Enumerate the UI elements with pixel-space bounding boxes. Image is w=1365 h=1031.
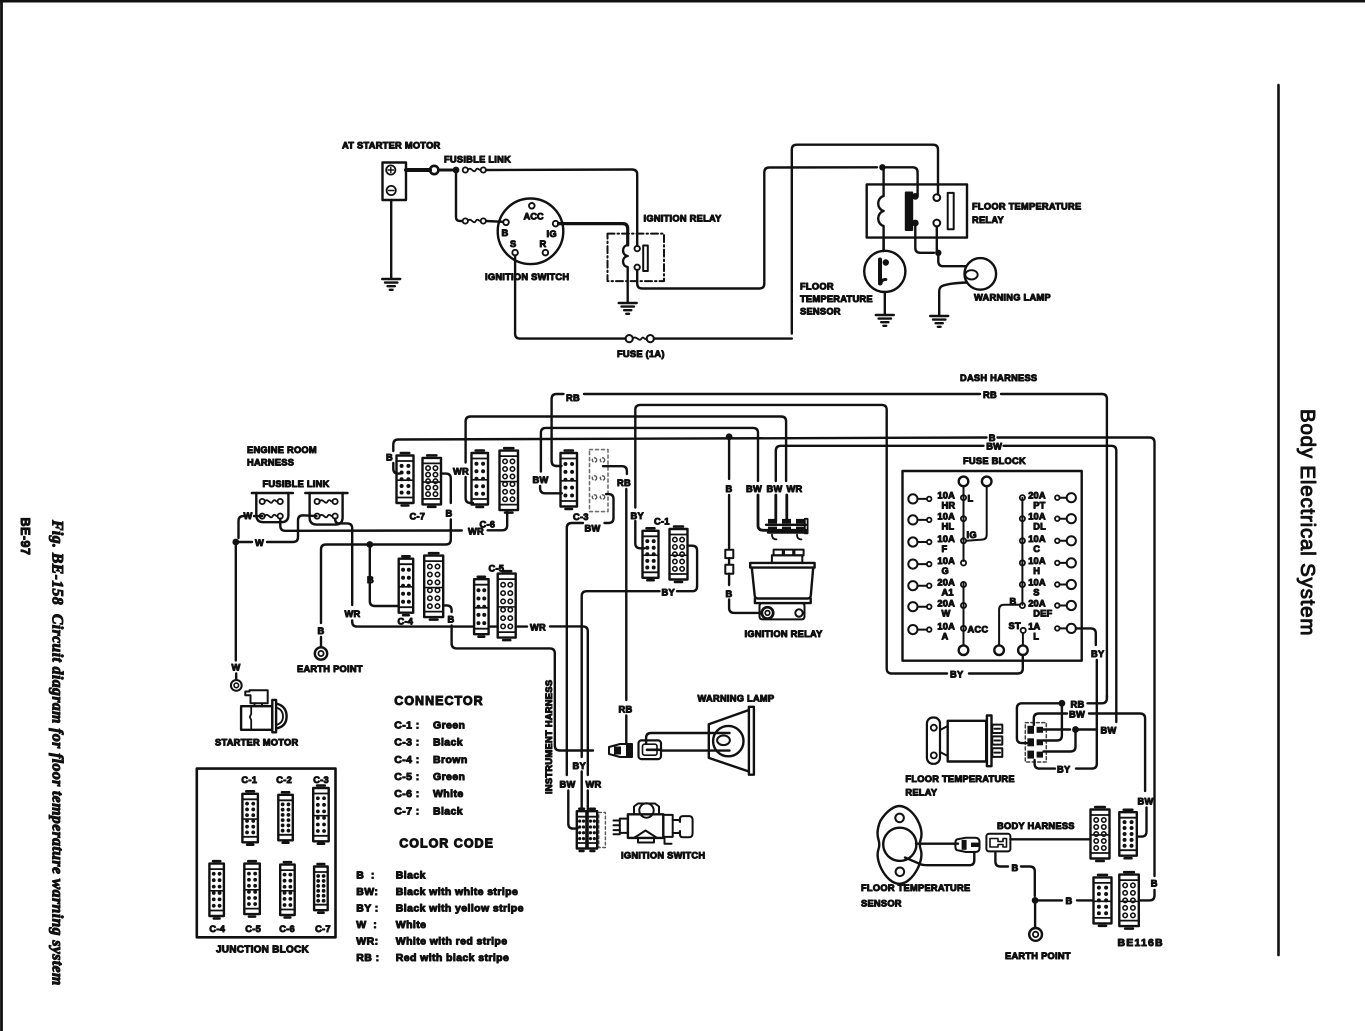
page frame: top border line [0,0,1365,3]
svg-text:L: L [1033,631,1039,641]
floor-temp relay coil [878,167,883,251]
fuse block B circle link down-left to bottom terminal [999,605,1020,646]
bullet connector on B branch (upper) [725,550,733,558]
svg-text:S: S [1033,588,1039,598]
connector C-3 (ghost half, dashed) [590,450,609,512]
svg-text:BW: BW [767,484,783,494]
svg-text:W: W [942,609,951,619]
svg-text:S: S [510,239,516,249]
svg-text:C-7: C-7 [315,924,331,934]
wire: fuse to floor-temp sensor riser [654,337,792,339]
connector C-4 (dark half) [399,559,414,613]
junction block connector C-7 [314,867,328,911]
svg-text:RB: RB [619,705,633,715]
svg-text:C-6: C-6 [279,924,295,934]
ignition switch (key switch circle) [498,199,564,265]
connector C-5 (dark half) [474,579,489,634]
svg-text:B: B [1012,863,1019,873]
svg-text:Green: Green [433,771,465,783]
svg-text:IGNITION RELAY: IGNITION RELAY [644,214,723,224]
connector C-5 (light half) [498,574,516,638]
svg-text:10A: 10A [937,556,955,566]
wire RB: C-3 ghost to RB riser [603,466,627,474]
wire WR: between C-5 halves [489,625,497,627]
wire: fusible link to B terminal [486,220,503,223]
bus BW (L4a): C-3 to relay strip [540,486,562,493]
svg-text:PT: PT [1033,501,1045,511]
floor temperature sensor (bottom, physical flange) [878,806,922,884]
wire B: sensor connector down to earth junction [995,853,1008,867]
svg-text:FLOOR TEMPERATURE: FLOOR TEMPERATURE [972,202,1081,212]
svg-text:WR: WR [586,780,602,790]
svg-text:BY: BY [573,761,587,771]
wire B: C-4 right to lamp connector bus [443,605,451,612]
svg-text:HR: HR [942,501,956,511]
floor-temp relay slot bar [948,193,954,229]
svg-text:WR:: WR: [356,935,378,947]
wire BY: C-1 right to BY riser [677,546,697,592]
fuse block left column fuses [908,494,917,503]
svg-text:FLOOR: FLOOR [800,282,834,292]
svg-text:C-4: C-4 [398,617,414,627]
lamp connector (left half, fed by RB and B) [609,744,632,757]
svg-text:RB: RB [566,393,580,403]
sensor connector (bullet pair) [955,838,979,852]
floor-temp relay contact points (circles) [933,194,940,201]
svg-text:10A: 10A [1028,534,1046,544]
svg-text:RB: RB [983,390,997,400]
connector C-7 (engine room, dark half) [397,456,414,504]
junction block connector C-2 [278,795,293,841]
body harness connector pair (light half) [1091,810,1110,859]
svg-text:EARTH POINT: EARTH POINT [1005,951,1071,961]
svg-text:HARNESS: HARNESS [247,458,294,468]
svg-text:RB: RB [1071,699,1085,709]
svg-text:C-3: C-3 [313,775,329,785]
wire W terminal ring at starter motor [231,680,242,691]
svg-text:FUSE BLOCK: FUSE BLOCK [963,456,1026,466]
svg-text:ACC: ACC [524,212,544,222]
svg-text:10A: 10A [1028,512,1046,522]
svg-text:ST: ST [1009,621,1021,631]
svg-text:Brown: Brown [433,754,468,766]
body harness connector pair (dark half) [1119,812,1137,856]
svg-text:RB :: RB : [356,952,379,964]
svg-text:FUSIBLE LINK: FUSIBLE LINK [263,479,330,489]
wire BW: relay connector top pin to BW vertical [1044,728,1071,730]
fusible link symbol (ignition switch B) [463,218,468,223]
svg-text:Black with yellow stripe: Black with yellow stripe [396,902,524,914]
fuse block right column fuses [1067,493,1076,502]
warning lamp (top, symbol) [965,258,997,290]
svg-text:Black: Black [433,805,463,817]
svg-text:FLOOR TEMPERATURE: FLOOR TEMPERATURE [861,883,970,893]
svg-text:10A: 10A [1028,556,1046,566]
wire: lamp connector upper to warning lamp [646,733,729,744]
ignition relay canister (middle drawing) [774,550,783,556]
svg-text:Black with white stripe: Black with white stripe [396,886,518,898]
wire BW: C-3 ghost to BW riser down [605,494,614,523]
svg-text:A1: A1 [942,588,954,598]
wire: BW junction drop to connector lower-right pin [1044,730,1076,752]
wire: fuse(1A) riser to warning-lamp contact circle [792,145,938,334]
wire BW#2 into strip top row [774,495,777,521]
wire RB drop from junction into connector right half [1044,703,1062,740]
connector C-1 (dark half) [643,531,659,578]
junction node on B bus (ignition relay branch) [726,433,733,440]
junction block connector C-4 [209,864,224,916]
svg-text:BY :: BY : [356,902,378,914]
floor-temp relay schematic connector (dashed ghost) [1025,723,1046,762]
ignition relay coil [623,245,628,270]
ignition relay contact points [635,246,640,251]
svg-text:W: W [255,538,264,548]
svg-text:10A: 10A [937,534,955,544]
svg-text:C-6 :: C-6 : [394,788,419,800]
svg-text:FUSIBLE LINK: FUSIBLE LINK [444,155,511,165]
wire WR: box2 right pin down to C-5 row [335,519,352,605]
svg-text:BY: BY [1091,649,1105,659]
svg-text:BW: BW [1138,797,1154,807]
connector C-6 (dark half) [472,453,489,505]
connector C-1 (light half) [670,529,688,580]
svg-text:WR: WR [787,484,803,494]
svg-text:White: White [396,919,427,931]
wire: relay outputs join to warning lamp [915,226,934,253]
ignition relay armature bar [643,246,648,272]
wire BW#1 into strip lower row [758,495,806,530]
fuse block box [903,471,1082,661]
starter motor (physical drawing) [245,690,267,703]
svg-text:B: B [386,453,393,463]
svg-text:WR: WR [530,622,546,632]
ignition relay connector strip [766,524,806,526]
svg-text:BW:: BW: [356,886,378,898]
svg-text:B: B [446,509,453,519]
svg-text:F: F [942,544,948,554]
svg-text:B: B [1066,896,1073,906]
svg-text:C-1 :: C-1 : [394,720,419,732]
ignition relay dash-dot box [608,234,665,282]
svg-text:ACC: ACC [968,624,989,634]
svg-text:20A: 20A [937,599,955,609]
svg-text:W: W [232,663,241,673]
BE116B lower connector pair (dark half) [1094,877,1112,923]
svg-text:BW: BW [746,484,762,494]
instrument harness connector (ghost) [599,813,606,848]
wire WR: C-5 to WR riser (instrument) [516,625,527,627]
svg-text:B: B [367,575,374,585]
wire: ignition relay coil to ground [627,270,629,302]
wire: sensor connector to body harness connector [1010,838,1089,840]
svg-text:C-6: C-6 [480,520,496,530]
svg-text:WR: WR [453,467,469,477]
junction node W [232,539,239,546]
svg-text:White: White [433,788,464,800]
ground: warning lamp (top) [930,315,948,317]
svg-text:DASH HARNESS: DASH HARNESS [960,373,1037,383]
svg-text:DEF: DEF [1033,609,1052,619]
wire: fusible link to ignition relay contact (top bus y=169.5) [486,170,637,246]
svg-text:FLOOR TEMPERATURE: FLOOR TEMPERATURE [905,774,1014,784]
junction block box [197,769,336,938]
svg-text:B: B [726,484,733,494]
svg-text:BE116B: BE116B [1118,937,1164,949]
svg-text:Black: Black [396,870,426,882]
floor temperature sensor (top, symbol) [864,251,905,292]
svg-text:B: B [726,589,733,599]
wire: floor-temp relay coil to sensor [882,238,884,251]
svg-text:C-5 :: C-5 : [394,771,419,783]
wire: relay contact out, right and up to floor-temp relay feed [637,167,877,288]
svg-text:20A: 20A [1028,599,1046,609]
svg-text:STARTER MOTOR: STARTER MOTOR [215,738,299,748]
junction node B branch to C-4 [366,541,373,548]
svg-text:JUNCTION BLOCK: JUNCTION BLOCK [216,945,309,956]
floor temp relay body [948,721,987,762]
wire B: junction to BE116B lower connector [1035,899,1062,901]
wire: sensor to its connector (upper) [916,843,958,845]
BE116B lower connector pair (light half) [1119,875,1139,927]
svg-text:BY: BY [662,588,676,598]
wire B bus to earth point: C-7 right to earth [321,520,451,624]
svg-text:B :: B : [356,870,375,882]
svg-text:HL: HL [942,522,955,532]
right border line [1277,85,1280,955]
svg-text:BODY HARNESS: BODY HARNESS [997,821,1075,831]
junction block connector C-3 [313,788,329,841]
svg-text:RB: RB [617,478,631,488]
svg-text:Green: Green [433,720,465,732]
svg-text:RELAY: RELAY [972,215,1004,225]
sensor mating connector (shell with H detail) [986,834,1010,852]
junction block connector C-6 [280,865,295,915]
svg-text:BE-97: BE-97 [18,518,32,556]
fuse block left bus: top circles [959,477,969,487]
wire: lamp connector lower to warning lamp [661,749,730,751]
svg-text:TEMPERATURE: TEMPERATURE [800,294,873,304]
wire RB to relay connector [1059,700,1066,707]
floor temp relay pins [992,725,1002,733]
fuse block IG link from second top circle [967,486,987,541]
svg-text:10A: 10A [937,491,955,501]
svg-text:DL: DL [1033,522,1046,532]
wire B: long riser into BE116B right connector [1140,890,1155,900]
svg-text:FUSE (1A): FUSE (1A) [617,349,665,359]
svg-text:CONNECTOR: CONNECTOR [394,694,483,708]
wire: feed to floor-temp relay contact [882,167,917,194]
svg-text:ENGINE ROOM: ENGINE ROOM [247,445,317,455]
wire: starter - terminal to ground [390,200,392,278]
bus BW (L5): relay strip to floor-temp relay connector [776,446,984,481]
svg-text:C-3: C-3 [573,512,589,522]
svg-text:IGNITION RELAY: IGNITION RELAY [745,629,824,639]
svg-text:BW: BW [560,780,576,790]
fuse block left bus circles and line [963,486,965,561]
svg-text:IGNITION SWITCH: IGNITION SWITCH [485,272,569,282]
svg-text:White with red stripe: White with red stripe [396,935,508,947]
junction block connector C-5 [244,864,259,915]
wire: ignition switch S to fuse (1A) [515,255,625,338]
fusible link box 1 [252,492,293,495]
svg-text:Black: Black [433,737,463,749]
svg-text:C-3 :: C-3 : [394,737,419,749]
svg-text:SENSOR: SENSOR [800,307,841,317]
earth point (engine room) [315,647,327,659]
svg-text:EARTH POINT: EARTH POINT [297,664,363,674]
wire BY: 1A L fuse to floor-temp relay connector [1076,628,1096,645]
svg-text:W :: W : [356,919,377,931]
ground: starter motor terminal [382,278,400,280]
svg-text:20A: 20A [1028,491,1046,501]
floor temperature relay (bottom, physical) bracket [927,718,940,764]
svg-text:B: B [448,615,455,625]
svg-text:W: W [244,511,253,521]
svg-text:C: C [1033,544,1040,554]
bullet connector on B branch (lower) [725,565,733,574]
connector C-3 (dark half) [561,453,578,507]
wire: sensor to its connector (lower loop) [905,852,974,865]
junction node (earth B) [1032,897,1039,904]
svg-text:Red with black stripe: Red with black stripe [396,952,509,964]
fuse block middle-right bus [1021,498,1023,605]
page frame: left border line [0,0,3,1031]
svg-text:10A: 10A [937,512,955,522]
instrument harness connector (dark half) [577,811,587,848]
wire WR: box1 right pin along y=530 to C-6 [280,519,462,531]
junction node at fusible link [453,167,460,174]
svg-text:COLOR CODE: COLOR CODE [399,837,494,851]
svg-text:IG: IG [547,229,557,239]
svg-text:BY: BY [1057,764,1071,774]
svg-text:B: B [1151,879,1158,889]
floor-temp relay armature (dark bar) [906,193,912,231]
svg-text:Body Electrical System: Body Electrical System [1296,409,1319,636]
wire: earth junction down to earth point [1034,900,1036,928]
fusible link symbol (top feed) [463,167,468,172]
fusible link box 2 [305,492,347,495]
warning lamp (bottom, physical) [749,707,754,775]
svg-text:C-4 :: C-4 : [394,754,419,766]
svg-text:BW: BW [585,524,601,534]
wire W down to starter motor [235,545,237,660]
svg-text:IGNITION SWITCH: IGNITION SWITCH [621,851,705,861]
svg-text:B: B [318,626,325,636]
connector C-7 (light half) [423,458,442,505]
svg-text:WARNING LAMP: WARNING LAMP [698,694,775,704]
svg-text:C-7: C-7 [410,512,426,522]
wire WR into strip top row [785,495,788,521]
fuse (1A) symbol [626,335,633,342]
ignition switch (bottom, physical) [639,803,653,817]
junction node: floor-temp relay coil feed [879,164,885,170]
svg-text:BW: BW [1069,710,1085,720]
svg-text:C-1: C-1 [241,775,257,785]
connector C-4 (light half) [424,556,443,618]
svg-text:H: H [1033,566,1040,576]
svg-text:C-1: C-1 [654,517,670,527]
wire BW into instrument connector [568,791,577,829]
svg-text:L: L [968,494,974,504]
svg-text:RELAY: RELAY [905,788,937,798]
svg-text:10A: 10A [937,621,955,631]
svg-text:WARNING LAMP: WARNING LAMP [974,293,1051,303]
earth point (body) [1029,928,1042,941]
bus BY (L2): C-1 to fuse block ST [635,521,644,548]
floor temperature relay box [867,184,967,237]
fuse block ST circle [1021,628,1026,633]
svg-text:G: G [942,566,949,576]
wire B: junction down to C-4 [370,545,398,607]
svg-text:BW: BW [533,475,549,485]
connector C-6 (light half) [500,451,519,511]
wire B: C-7 right half down to earth bus [441,474,451,503]
starter motor terminal block (battery terminals) [383,163,407,201]
fuse block left bus lower segment [963,583,965,646]
wire: starter + feed (thick) with ring terminal [406,168,430,172]
wire RB riser down to instrument harness [625,489,627,700]
svg-text:AT STARTER MOTOR: AT STARTER MOTOR [342,141,441,151]
svg-text:BW: BW [1101,725,1117,735]
wire: sensor to ground [884,292,886,314]
wire: RB down to C-3 connector [557,465,562,467]
svg-text:SENSOR: SENSOR [861,899,902,909]
wire: IG terminal to ignition relay coil (thick) [559,224,628,245]
lamp connector (right shell half) [639,740,662,759]
svg-text:C-4: C-4 [209,924,225,934]
svg-text:INSTRUMENT HARNESS: INSTRUMENT HARNESS [544,680,554,794]
ground: ignition relay [619,302,637,304]
svg-text:A: A [942,631,949,641]
svg-text:BY: BY [631,511,645,521]
svg-text:IG: IG [967,530,977,540]
svg-text:C-5: C-5 [489,564,505,574]
wire B: bus junction down to ignition relay [728,437,730,479]
svg-text:WR: WR [345,609,361,619]
wire: junction to warning lamp [938,253,966,266]
svg-text:C-7 :: C-7 : [394,805,419,817]
svg-text:BW: BW [986,442,1002,452]
svg-text:BY: BY [950,669,964,679]
svg-text:R: R [540,239,547,249]
wire: warning lamp to ground [939,283,967,316]
wire: drop from junction to ignition switch B fusible link [456,173,462,221]
junction block connector C-1 [242,794,258,843]
junction node: lamp feed [935,250,941,256]
svg-text:C-5: C-5 [245,924,261,934]
ground: floor-temp sensor (top) [876,314,894,316]
svg-text:C-2: C-2 [276,775,292,785]
svg-text:10A: 10A [1028,578,1046,588]
svg-text:Fig. BE-158 Circuit diagram f: Fig. BE-158 Circuit diagram for floor te… [49,519,66,986]
instrument harness connector (dark half 2) [588,811,598,848]
svg-text:B: B [502,228,509,238]
svg-text:20A: 20A [937,578,955,588]
svg-text:1A: 1A [1028,621,1040,631]
